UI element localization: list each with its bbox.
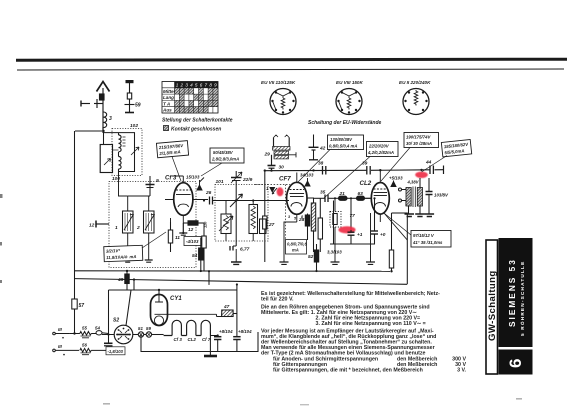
svg-text:6,77: 6,77 xyxy=(240,247,250,253)
osc coil right2 xyxy=(260,219,267,234)
switch S2 xyxy=(114,325,133,344)
resistor 47 xyxy=(217,310,237,317)
dashed wire CF7 xyxy=(255,185,290,241)
cap 42 xyxy=(309,135,319,160)
coil 102b xyxy=(119,157,122,170)
wire bus to CF7 xyxy=(213,200,287,202)
svg-text:50/45/38V: 50/45/38V xyxy=(213,150,234,155)
wires box100 xyxy=(119,176,151,260)
svg-text:51: 51 xyxy=(138,326,143,331)
row Mittel shaded cells xyxy=(175,88,194,94)
svg-text:3. Zahl für eine Netzspannung: 3. Zahl für eine Netzspannung von 110 V∼… xyxy=(316,321,426,327)
svg-text:CL2: CL2 xyxy=(188,337,197,342)
wire B+ vertical xyxy=(236,283,238,335)
resistor drop 390 xyxy=(391,213,393,271)
ground osc xyxy=(231,262,242,264)
svg-text:5 RÖHREN-SCHATULLE: 5 RÖHREN-SCHATULLE xyxy=(519,261,525,336)
wire vertical right x407 xyxy=(406,213,408,285)
svg-text:Cf 3: Cf 3 xyxy=(174,337,183,342)
fuse 57 xyxy=(72,299,77,309)
svg-text:30/ 30 /28mA: 30/ 30 /28mA xyxy=(406,141,432,146)
pennant 34/103 xyxy=(305,178,310,186)
output transformer xyxy=(399,178,423,214)
svg-text:101: 101 xyxy=(216,179,224,185)
svg-text:2: 2 xyxy=(180,83,184,88)
wire link bus A to bus B xyxy=(208,271,210,285)
svg-text:Mittel: Mittel xyxy=(163,89,176,94)
leader box5 xyxy=(381,148,410,182)
svg-text:38: 38 xyxy=(318,161,324,167)
svg-text:59: 59 xyxy=(146,326,151,331)
svg-text:EU VII 110/125K: EU VII 110/125K xyxy=(261,80,296,85)
svg-text:97/15/12 V: 97/15/12 V xyxy=(413,233,435,238)
cap +8/104 a xyxy=(214,336,221,352)
antenna xyxy=(97,82,110,132)
row TA shaded cells xyxy=(175,100,185,106)
svg-text:190/175/74V: 190/175/74V xyxy=(406,135,432,140)
cap 38 xyxy=(323,166,326,175)
cathode wire CF7 xyxy=(284,222,297,262)
ground CF7 cathode xyxy=(280,262,289,264)
svg-text:3: 3 xyxy=(109,116,112,122)
svg-text:11,8/10A/4· mA: 11,8/10A/4· mA xyxy=(106,254,136,260)
EU socket diagram 2 xyxy=(336,89,362,115)
svg-text:S2: S2 xyxy=(113,318,119,324)
resistor 27 xyxy=(263,171,267,263)
ground speaker xyxy=(425,214,435,217)
coil 3 xyxy=(103,112,107,133)
label box 50/45/38V xyxy=(210,148,244,163)
trimmer arrow at junction xyxy=(230,194,243,207)
resistor 28 xyxy=(305,214,309,241)
chassis ground bar xyxy=(204,355,217,357)
svg-text:EU II 220/240K: EU II 220/240K xyxy=(399,80,431,85)
title block: GW-Schaltung white box xyxy=(486,240,498,374)
cap +8/104 b xyxy=(233,335,240,352)
dashed box 100 xyxy=(109,182,196,268)
svg-text:8: 8 xyxy=(209,83,212,88)
svg-text:48: 48 xyxy=(117,277,124,283)
svg-text:+0: +0 xyxy=(380,232,386,238)
svg-text:57: 57 xyxy=(79,303,85,309)
resistor 55 zigzag xyxy=(69,332,96,338)
mains terminal III a xyxy=(53,332,70,338)
svg-text:SIEMENS 53: SIEMENS 53 xyxy=(507,258,517,327)
svg-text:+8/104: +8/104 xyxy=(219,329,233,334)
svg-text:21: 21 xyxy=(339,191,346,197)
svg-text:für Gitterspannungen, die mit: für Gitterspannungen, die mit * bezeichn… xyxy=(273,368,423,374)
svg-text:28: 28 xyxy=(298,217,305,223)
contact 59 xyxy=(144,332,164,337)
ground CL2 cathode xyxy=(366,262,375,264)
svg-text:9: 9 xyxy=(214,83,217,88)
wires osc xyxy=(226,201,253,263)
leader box6 xyxy=(422,156,448,173)
svg-text:den Meßbereich: den Meßbereich xyxy=(397,362,437,368)
svg-text:T A: T A xyxy=(163,101,170,106)
scan specks xyxy=(0,194,522,405)
label box 215/197/86V xyxy=(156,141,188,158)
frame antenna box xyxy=(100,145,112,173)
svg-text:9: 9 xyxy=(156,178,159,184)
title block: SIEMENS 53 black box xyxy=(499,238,533,347)
svg-text:Aus: Aus xyxy=(162,108,172,113)
label box 22/20/20V xyxy=(367,142,399,157)
leader box2 xyxy=(201,163,222,176)
osc coil right xyxy=(249,205,258,234)
svg-text:42: 42 xyxy=(319,146,326,152)
svg-text:44: 44 xyxy=(425,160,432,166)
label box 130/80/38V xyxy=(328,135,364,150)
resistor 11 xyxy=(168,222,172,252)
row Aus shaded cells xyxy=(175,107,209,113)
svg-text:29: 29 xyxy=(264,152,271,158)
svg-text:Schaltung der EU-Widerstände: Schaltung der EU-Widerstände xyxy=(308,120,382,126)
svg-text:Cf 7: Cf 7 xyxy=(202,337,211,342)
wire bus A (HT) xyxy=(75,270,390,273)
ground 107 xyxy=(331,262,340,264)
wire drop under 63 xyxy=(333,201,335,245)
pennant 1/ grid CF7 xyxy=(270,188,277,195)
cap +0 xyxy=(360,198,378,244)
resistor 48 xyxy=(125,271,129,290)
legend: contact closed xyxy=(164,126,169,131)
label box 97/15/12V xyxy=(411,231,451,248)
svg-text:4,2/0,2/82mA: 4,2/0,2/82mA xyxy=(367,150,394,155)
tube CL2 xyxy=(371,183,389,215)
svg-text:7: 7 xyxy=(205,83,208,88)
resistor 54a xyxy=(199,238,203,271)
resistor 63 xyxy=(357,196,372,200)
bead 54 xyxy=(96,331,114,335)
svg-text:63: 63 xyxy=(358,191,364,197)
label box 185/180/82V xyxy=(441,139,471,156)
coil 102a xyxy=(119,135,126,152)
svg-text:-4/103: -4/103 xyxy=(186,239,199,244)
svg-text:35: 35 xyxy=(320,190,326,196)
diagonal lead CL2 to bus xyxy=(384,213,407,240)
svg-text:3: 3 xyxy=(185,83,188,88)
wire top bus xyxy=(265,166,444,175)
svg-text:+5/103: +5/103 xyxy=(389,176,403,181)
pennant 15/103 xyxy=(197,178,204,191)
svg-text:mA: mA xyxy=(292,248,299,253)
antenna coupling terminal 8 xyxy=(81,99,103,108)
svg-text:CY1: CY1 xyxy=(170,296,182,302)
leader box7 xyxy=(142,232,166,248)
dashed box 101 xyxy=(215,185,268,242)
resistor 52 xyxy=(314,244,318,271)
leader box1 xyxy=(172,157,181,182)
svg-text:130/80/38V: 130/80/38V xyxy=(330,137,353,142)
trimmer cap 22/9 xyxy=(231,171,242,246)
svg-text:22/9: 22/9 xyxy=(242,177,253,183)
mains terminal III b xyxy=(53,349,79,355)
svg-text:4,38V: 4,38V xyxy=(407,180,420,185)
wire bus B xyxy=(75,279,407,285)
resistor 56 zigzag xyxy=(80,348,106,354)
ground under coil2 xyxy=(145,260,153,262)
svg-text:GW-Schaltung: GW-Schaltung xyxy=(487,270,498,341)
svg-text:1: 1 xyxy=(115,225,118,231)
svg-text:CF7: CF7 xyxy=(279,176,291,183)
label box 3/2/1V* xyxy=(104,245,143,261)
wire power box top xyxy=(109,290,238,342)
red highlight 107 xyxy=(338,226,355,233)
svg-text:54: 54 xyxy=(192,253,198,259)
svg-text:EU VIII 150K: EU VIII 150K xyxy=(336,80,363,85)
svg-text:1: 1 xyxy=(176,83,179,88)
leader box4 xyxy=(324,157,370,199)
EU socket diagram 3 xyxy=(403,89,429,115)
heater right wire xyxy=(210,314,217,354)
cap 26 xyxy=(210,197,213,205)
svg-text:47: 47 xyxy=(223,304,230,310)
diagonal lead CF7 to box8 xyxy=(297,214,301,240)
svg-text:26: 26 xyxy=(205,190,212,196)
ground under Cf3 xyxy=(179,233,187,235)
svg-text:110: 110 xyxy=(203,221,208,228)
svg-text:Lang: Lang xyxy=(163,95,174,100)
svg-text:6: 6 xyxy=(506,359,525,368)
svg-text:Kontakt geschlossen: Kontakt geschlossen xyxy=(171,126,221,132)
leader box3 xyxy=(298,150,331,183)
svg-text:3/2/1V*: 3/2/1V* xyxy=(106,248,121,254)
heater humps xyxy=(164,320,211,335)
svg-text:6: 6 xyxy=(200,83,203,88)
wire drop 351 xyxy=(350,198,352,230)
wire top of 390 xyxy=(392,212,408,214)
svg-text:77: 77 xyxy=(350,213,356,219)
coil 2 xyxy=(144,211,155,233)
svg-text:11: 11 xyxy=(175,235,180,241)
svg-text:100: 100 xyxy=(112,176,120,182)
dashed box 102 xyxy=(112,129,142,176)
svg-text:+1: +1 xyxy=(357,232,363,238)
cap +1 xyxy=(348,230,355,244)
wire drop 134 xyxy=(133,279,135,290)
top coil assembly 29 xyxy=(272,135,297,165)
wires in box 102 xyxy=(104,131,140,176)
ground transformer xyxy=(405,214,425,217)
svg-text:12: 12 xyxy=(188,227,194,233)
svg-text:+8/104: +8/104 xyxy=(238,329,252,334)
row Lang shaded cells xyxy=(179,94,184,100)
svg-text:15/103: 15/103 xyxy=(186,175,200,180)
speaker cap xyxy=(426,178,433,214)
svg-text:41° 35 /31,0ms: 41° 35 /31,0ms xyxy=(412,240,443,245)
title block: number 6 black box xyxy=(499,350,533,375)
wire 107 node xyxy=(330,231,360,262)
label box -1,8/103 xyxy=(106,347,125,355)
coil 1 xyxy=(123,211,134,233)
cap 30 xyxy=(268,166,276,171)
svg-text:3 V.: 3 V. xyxy=(457,368,466,374)
svg-text:2: 2 xyxy=(136,225,140,231)
svg-text:54: 54 xyxy=(95,326,100,331)
tube Cf3 xyxy=(174,183,193,216)
label box 0,8/0,7/0,6 mA xyxy=(286,240,308,255)
label box -4/103 xyxy=(184,237,201,246)
resistor 160a xyxy=(311,198,315,252)
wire cf3 cathode region xyxy=(171,218,205,233)
red highlight right xyxy=(415,172,428,178)
red highlight CF7 grid xyxy=(277,187,284,196)
resistor 21 xyxy=(328,196,357,200)
terminal 12 xyxy=(96,221,109,228)
cap 39 xyxy=(367,166,370,175)
svg-text:12: 12 xyxy=(89,223,95,229)
svg-text:103/8V: 103/8V xyxy=(434,193,449,198)
svg-text:Stellung der Schalterkontakte: Stellung der Schalterkontakte xyxy=(162,118,233,124)
svg-text:52: 52 xyxy=(308,254,314,260)
tube CY1 xyxy=(151,295,168,326)
wire antenna to left rail xyxy=(75,130,103,132)
svg-text:4: 4 xyxy=(190,83,193,88)
svg-text:-1,8/103: -1,8/103 xyxy=(108,349,124,354)
dashed component 77 xyxy=(330,198,341,231)
pennant +5/103 xyxy=(391,181,396,187)
bottom return wire xyxy=(141,332,258,352)
cap below S2 xyxy=(104,342,113,346)
cap 35 xyxy=(314,195,328,203)
resistor 160b xyxy=(318,198,322,252)
top thin rule xyxy=(17,69,564,70)
svg-text:59: 59 xyxy=(135,103,141,109)
pin numbers CF7 xyxy=(288,215,304,221)
wire CL2 cathode xyxy=(370,213,372,262)
svg-text:22/20/20V: 22/20/20V xyxy=(368,144,390,149)
svg-text:30: 30 xyxy=(279,165,285,171)
tube CF7 xyxy=(287,182,307,214)
notes text block xyxy=(261,291,467,374)
svg-text:2,8/2,8/3,0mA: 2,8/2,8/3,0mA xyxy=(211,157,239,162)
svg-text:teil für 220 V.: teil für 220 V. xyxy=(261,297,294,303)
top thick rule xyxy=(16,59,567,60)
svg-text:102: 102 xyxy=(130,123,138,129)
svg-text:CL2: CL2 xyxy=(360,180,372,187)
leader box9 xyxy=(385,214,412,236)
left rail wire xyxy=(74,131,76,299)
svg-text:56: 56 xyxy=(82,343,87,348)
svg-text:27: 27 xyxy=(268,222,275,228)
EU socket diagram 1 xyxy=(270,89,296,115)
svg-text:0,8/0,5/0,4 mA: 0,8/0,5/0,4 mA xyxy=(329,144,357,149)
connector 59 xyxy=(125,80,135,113)
trimmer 9 xyxy=(146,176,155,196)
svg-text:0,8/0,7/0,6: 0,8/0,7/0,6 xyxy=(287,242,307,247)
osc coil left xyxy=(219,214,233,234)
resistor 58v xyxy=(202,230,206,271)
cap 44 xyxy=(430,166,433,175)
resistor 12h xyxy=(183,221,204,225)
svg-text:55: 55 xyxy=(82,326,87,331)
svg-text:5: 5 xyxy=(195,83,198,88)
ground under coil1 xyxy=(124,260,132,262)
switch-contact table xyxy=(162,82,218,114)
contact 51 xyxy=(133,332,144,337)
label box 190/175/74V xyxy=(404,133,439,148)
